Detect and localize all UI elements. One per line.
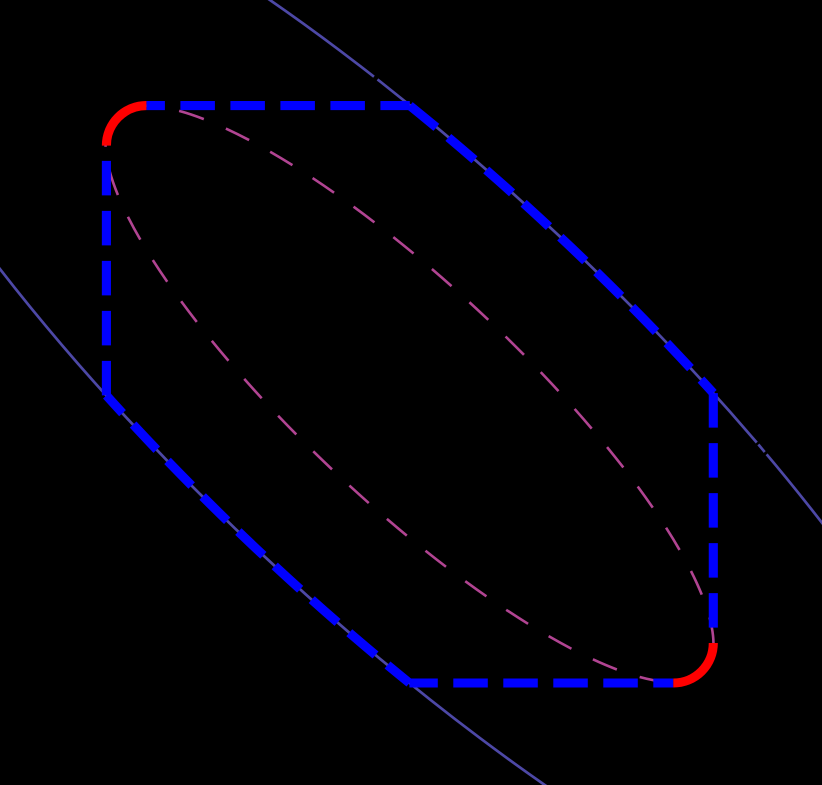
rounded corner arc top-left (red) [106, 106, 146, 146]
constraint-set boundary: left edge (thick blue dashed) [102, 146, 111, 396]
small break in outer ellipse upper arc (segment join gap) [372, 75, 378, 83]
second small break in outer ellipse upper arc near right edge [762, 451, 768, 456]
constraint-set boundary: top edge (thick blue dashed) [146, 101, 409, 110]
small break in outer ellipse upper arc near right edge [754, 442, 760, 447]
constraint-set boundary: upper-right ellipse arc (thick blue dashed) [410, 106, 714, 394]
constraint-set boundary: right edge (thick blue dashed) [709, 393, 718, 643]
rounded corner arc bottom-right (red) [673, 643, 713, 683]
constraint-set boundary: bottom edge (thick blue dashed) [409, 678, 673, 687]
constraint-set boundary: lower-left ellipse arc (thick blue dashed) [106, 395, 409, 683]
